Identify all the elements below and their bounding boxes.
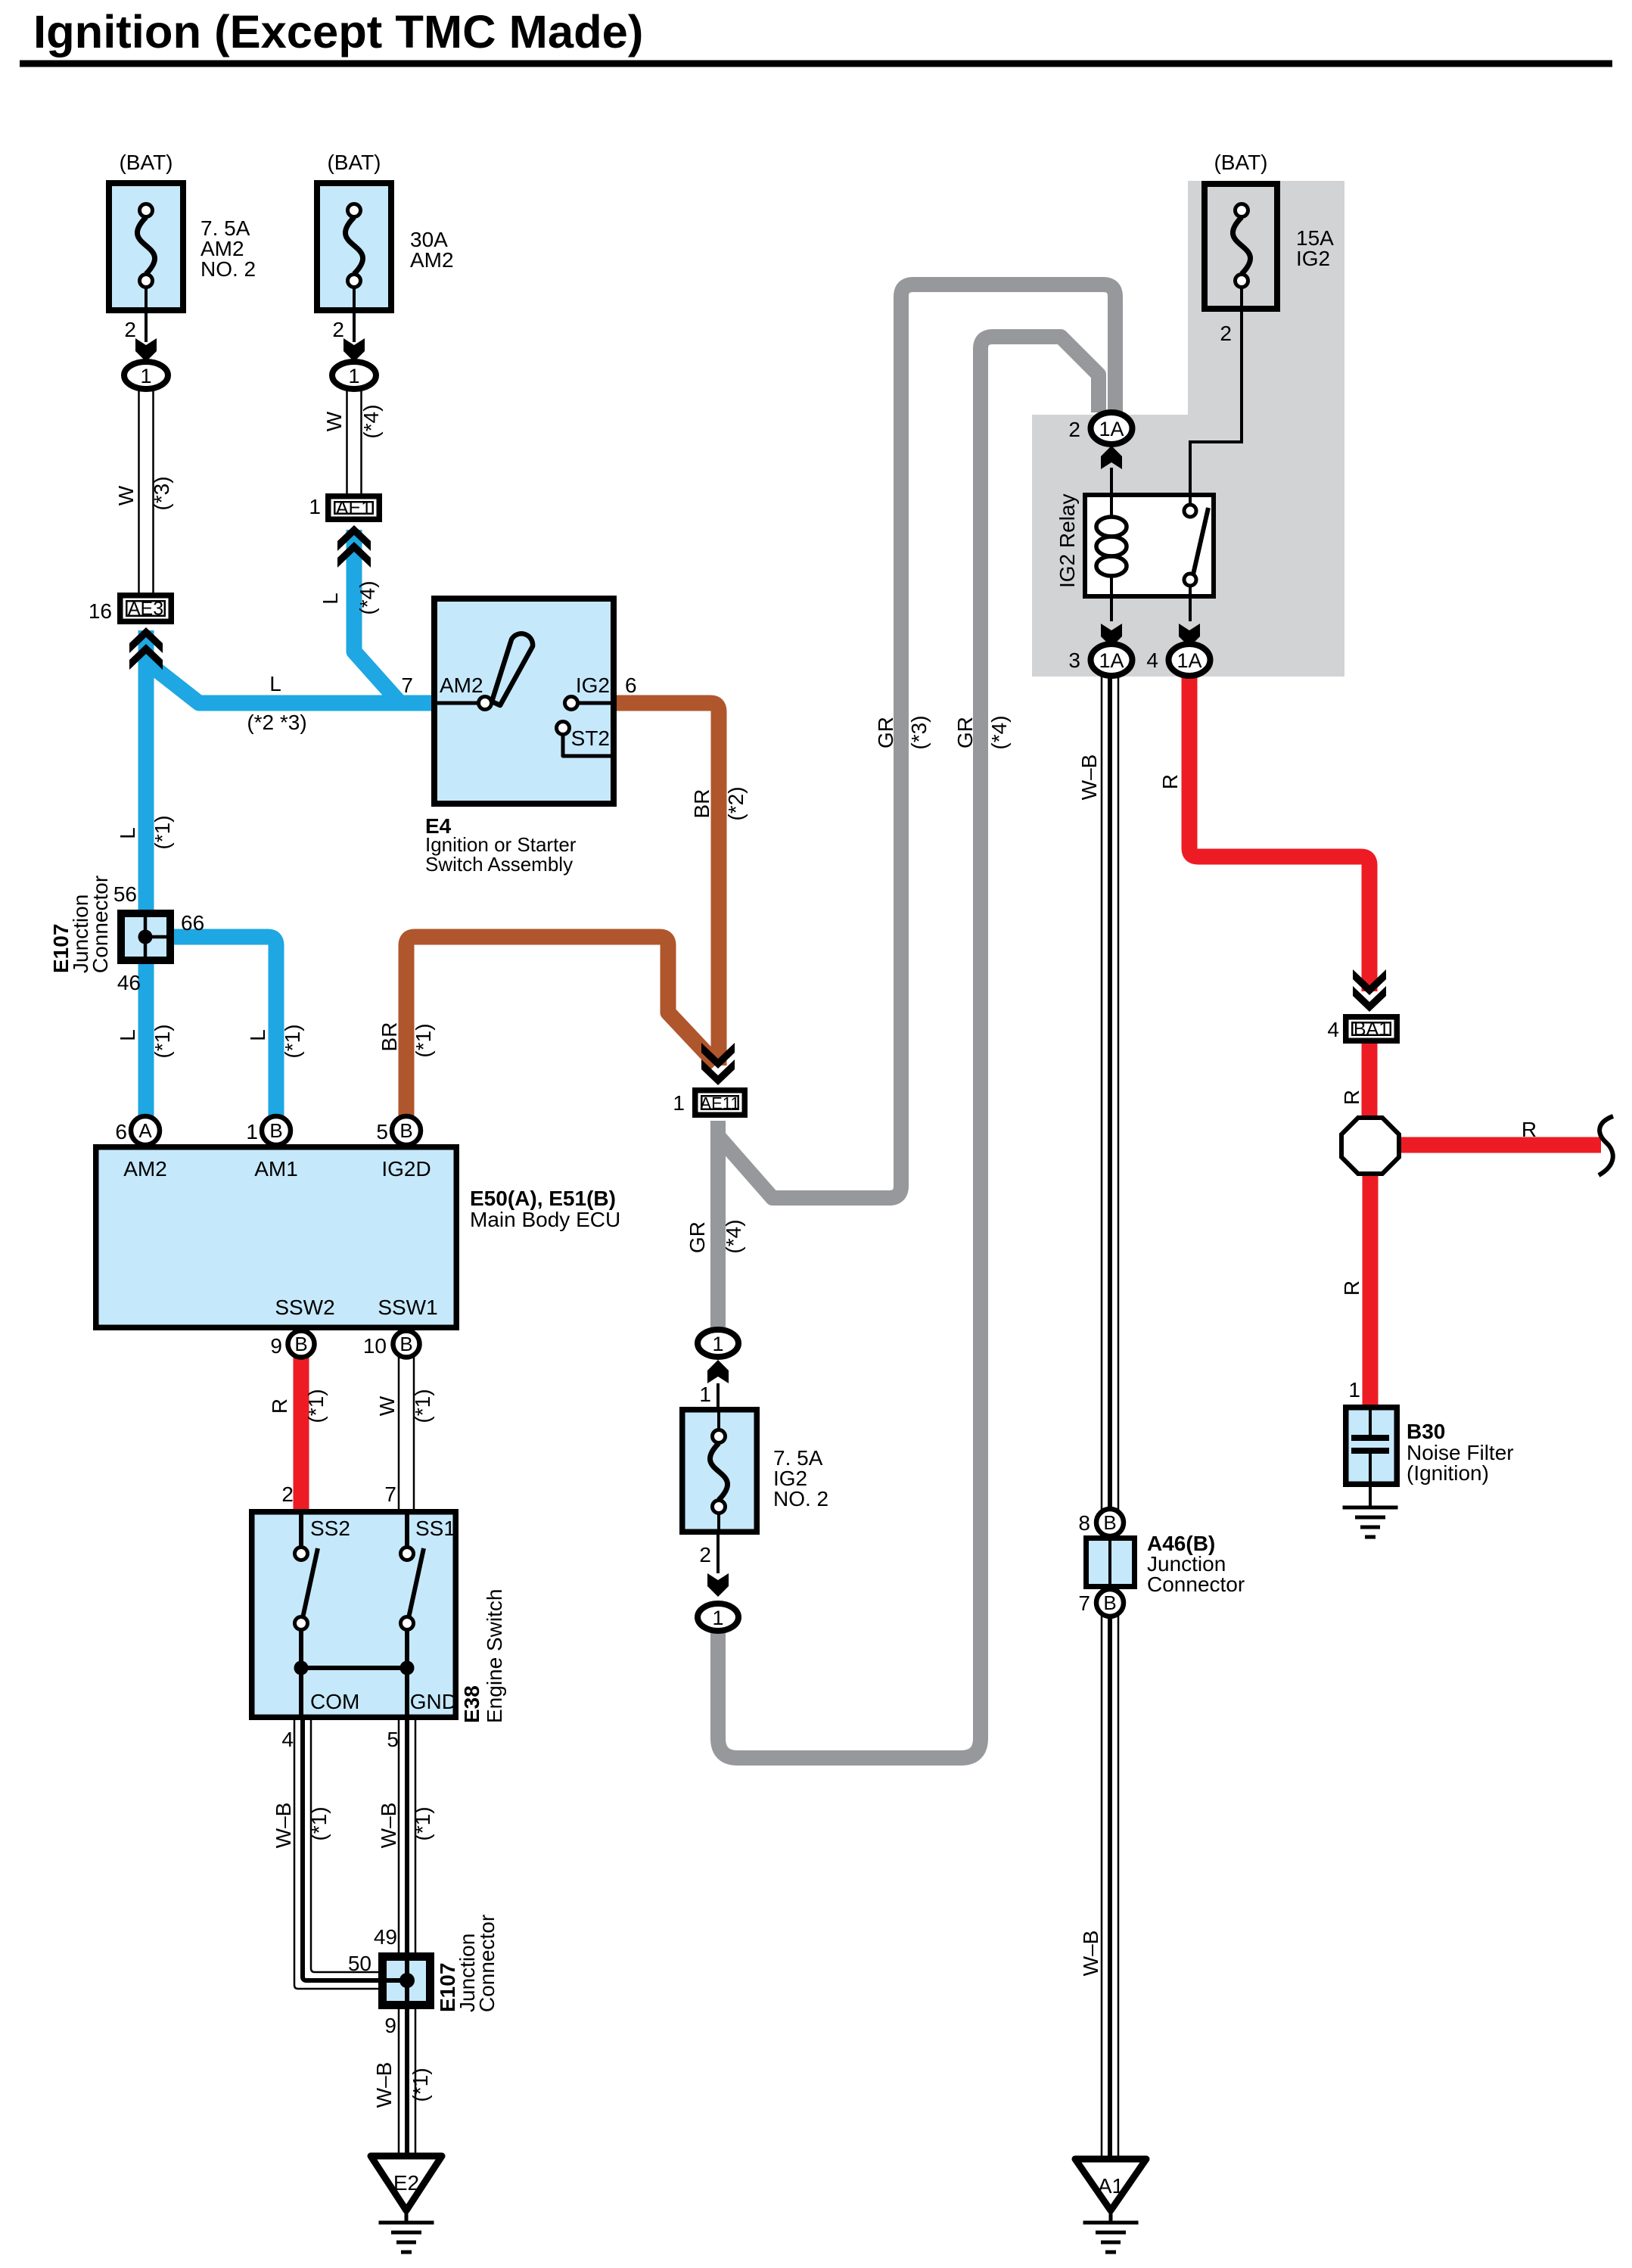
label B30 Noise Filter bbox=[1407, 1420, 1514, 1485]
svg-text:2: 2 bbox=[124, 318, 136, 341]
wire W (*1) ECU SSW1 to engine switch SS1 bbox=[399, 1357, 414, 1509]
svg-text:Connector: Connector bbox=[1147, 1573, 1245, 1596]
svg-text:4: 4 bbox=[1146, 649, 1158, 672]
svg-text:(BAT): (BAT) bbox=[119, 151, 173, 174]
svg-text:Ignition (Except TMC Made): Ignition (Except TMC Made) bbox=[33, 6, 643, 58]
svg-text:A1: A1 bbox=[1098, 2174, 1124, 2198]
ECU pin 9 B bbox=[270, 1331, 314, 1358]
label E107 Junction Connector upper bbox=[49, 876, 112, 973]
wire L from AE3 down to ECU pin A6 bbox=[138, 630, 154, 1116]
svg-text:B: B bbox=[294, 1333, 307, 1355]
E4 AM2 contact bbox=[431, 697, 492, 710]
junction connector E107 upper bbox=[121, 913, 170, 960]
svg-text:GND: GND bbox=[410, 1690, 457, 1713]
label GR (*4) below AE11 bbox=[685, 1219, 745, 1253]
svg-text:46: 46 bbox=[117, 971, 141, 994]
svg-text:BR: BR bbox=[378, 1022, 401, 1052]
A46 pin 7 B bbox=[1078, 1589, 1124, 1616]
label ST2 bbox=[571, 726, 610, 750]
svg-text:(Ignition): (Ignition) bbox=[1407, 1461, 1489, 1485]
svg-text:(*3): (*3) bbox=[150, 476, 173, 510]
arrow into relay 1A-2 bbox=[1101, 446, 1122, 469]
svg-text:1: 1 bbox=[673, 1091, 685, 1115]
svg-text:W: W bbox=[322, 411, 346, 431]
A46 pin 8 B bbox=[1078, 1509, 1124, 1536]
label COM bbox=[310, 1690, 359, 1713]
relay coil bbox=[1096, 493, 1127, 599]
pin 7 engine switch bbox=[384, 1482, 396, 1506]
svg-text:L: L bbox=[116, 1029, 139, 1041]
svg-text:(*1): (*1) bbox=[411, 1389, 434, 1423]
fuse 15A IG2 bbox=[1205, 184, 1277, 310]
svg-text:B: B bbox=[399, 1333, 412, 1355]
label W-B to A1 bbox=[1079, 1930, 1102, 1977]
connector BA1 bbox=[1327, 1017, 1397, 1041]
svg-text:1: 1 bbox=[712, 1607, 723, 1629]
svg-text:(*1): (*1) bbox=[307, 1806, 331, 1840]
svg-text:NO. 2: NO. 2 bbox=[773, 1487, 828, 1510]
label BR (*2) bbox=[690, 786, 748, 820]
svg-text:6: 6 bbox=[625, 674, 637, 697]
svg-text:AM2: AM2 bbox=[123, 1157, 167, 1181]
svg-text:SSW2: SSW2 bbox=[275, 1296, 334, 1319]
arrow below fuse IG2 NO.2 bbox=[707, 1573, 729, 1597]
svg-text:IG2 Relay: IG2 Relay bbox=[1055, 494, 1079, 589]
svg-text:4: 4 bbox=[281, 1728, 294, 1751]
label IG2 Relay bbox=[1055, 494, 1079, 589]
label L (*2 *3) horizontal bbox=[247, 672, 306, 734]
svg-text:(*1): (*1) bbox=[412, 1023, 435, 1057]
connector oval 1A-2 bbox=[1068, 412, 1132, 444]
label 7.5A AM2 NO.2 bbox=[201, 216, 256, 281]
label (BAT) fuse IG2 bbox=[1214, 151, 1267, 174]
wire L (*4) from AE1 down to AM2 branch bbox=[354, 530, 399, 702]
svg-text:2: 2 bbox=[699, 1543, 711, 1566]
ECU pin 10 B bbox=[363, 1331, 420, 1358]
svg-text:AM2: AM2 bbox=[440, 674, 483, 697]
pin 56 bbox=[113, 882, 137, 906]
wire R splice to right break bbox=[1397, 1137, 1601, 1153]
wire L branch to ignition switch AM2 bbox=[143, 659, 431, 703]
label GR (*4) vertical bbox=[953, 715, 1011, 749]
noise filter B30 bbox=[1346, 1405, 1397, 1507]
label R right branch bbox=[1522, 1118, 1537, 1141]
label W-B (*1) to E2 bbox=[372, 2062, 432, 2108]
label SS1 bbox=[415, 1517, 455, 1540]
label W-B (*1) COM bbox=[272, 1803, 331, 1849]
switch SS1 bbox=[401, 1509, 424, 1630]
pin 5 engine switch bbox=[387, 1728, 399, 1751]
svg-text:(*4): (*4) bbox=[722, 1219, 745, 1253]
svg-text:1A: 1A bbox=[1099, 418, 1124, 440]
pin 2 fuse IG2 NO.2 bbox=[699, 1543, 711, 1566]
svg-text:1: 1 bbox=[246, 1120, 258, 1143]
connector AE1 bbox=[309, 495, 379, 519]
ground below B30 bbox=[1343, 1507, 1398, 1537]
svg-text:AM1: AM1 bbox=[254, 1157, 298, 1181]
ECU pin 6 A bbox=[115, 1116, 160, 1145]
label 7.5A IG2 NO.2 bbox=[773, 1446, 828, 1510]
label SSW1 bbox=[378, 1296, 437, 1319]
svg-text:W–B: W–B bbox=[377, 1803, 400, 1849]
svg-text:2: 2 bbox=[332, 318, 344, 341]
svg-text:66: 66 bbox=[181, 911, 204, 935]
junction connector E107 lower bbox=[383, 1957, 431, 2006]
svg-text:(*1): (*1) bbox=[281, 1024, 304, 1058]
label R below splice bbox=[1340, 1280, 1363, 1296]
svg-text:(*1): (*1) bbox=[304, 1389, 328, 1423]
wire GR (*4) from fuse IG2 NO.2 around to relay 1A-2 bbox=[718, 337, 1099, 1758]
relay contact bbox=[1184, 493, 1208, 599]
svg-text:AE1: AE1 bbox=[336, 498, 371, 519]
label 15A IG2 bbox=[1296, 226, 1334, 270]
label R (*1) SSW2 bbox=[268, 1389, 328, 1423]
splice octagon bbox=[1341, 1118, 1399, 1174]
svg-text:GR: GR bbox=[953, 717, 977, 748]
svg-text:2: 2 bbox=[1220, 322, 1232, 345]
label W (*1) SSW1 bbox=[375, 1389, 434, 1423]
svg-text:5: 5 bbox=[376, 1120, 388, 1143]
connector oval 1A-4 bbox=[1146, 644, 1210, 676]
pin 49 bbox=[374, 1925, 397, 1949]
svg-text:GR: GR bbox=[874, 717, 897, 748]
svg-text:16: 16 bbox=[89, 599, 112, 623]
label A46(B) Junction Connector bbox=[1147, 1532, 1245, 1596]
svg-text:Connector: Connector bbox=[89, 876, 112, 973]
title underline bbox=[20, 61, 1612, 67]
pin 1 fuse IG2 NO.2 bbox=[699, 1383, 711, 1406]
svg-text:GR: GR bbox=[685, 1221, 709, 1253]
label W (*4) bbox=[322, 404, 383, 438]
connector oval 1 above fuse IG2 NO.2 bbox=[698, 1330, 738, 1357]
svg-text:(*2): (*2) bbox=[724, 786, 748, 820]
svg-text:B: B bbox=[269, 1119, 282, 1142]
svg-text:3: 3 bbox=[1068, 649, 1080, 672]
label GR (*3) vertical bbox=[874, 715, 931, 749]
svg-text:B: B bbox=[399, 1119, 412, 1142]
IG2 relay box bbox=[1085, 495, 1214, 596]
svg-text:L: L bbox=[116, 827, 139, 839]
label 30A AM2 bbox=[410, 228, 454, 272]
fuse 7.5A IG2 NO.2 bbox=[682, 1409, 757, 1532]
label AM2 ECU bbox=[123, 1157, 167, 1181]
svg-text:A: A bbox=[138, 1119, 152, 1142]
svg-text:COM: COM bbox=[310, 1690, 359, 1713]
svg-text:SS2: SS2 bbox=[310, 1517, 350, 1540]
svg-text:(*1): (*1) bbox=[151, 1024, 174, 1058]
svg-text:SSW1: SSW1 bbox=[378, 1296, 437, 1319]
wire W-B (*1) engine switch GND to ground E2 bbox=[399, 1720, 415, 2166]
svg-text:Connector: Connector bbox=[475, 1915, 499, 2012]
label L (*4) bbox=[319, 580, 379, 614]
svg-text:B: B bbox=[1103, 1591, 1116, 1614]
pin 66 bbox=[181, 911, 204, 935]
svg-text:L: L bbox=[319, 593, 342, 605]
pin 2 fuse AM2 bbox=[332, 318, 344, 341]
svg-text:7: 7 bbox=[401, 674, 413, 697]
svg-text:E2: E2 bbox=[393, 2171, 419, 2195]
svg-text:R: R bbox=[268, 1398, 291, 1414]
label W-B (*1) GND bbox=[377, 1803, 434, 1849]
label E107 Junction Connector lower bbox=[436, 1915, 499, 2012]
label R relay bbox=[1158, 774, 1182, 789]
wire R splice to noise filter B30 bbox=[1363, 1171, 1379, 1406]
svg-text:6: 6 bbox=[115, 1120, 127, 1143]
pin 50 bbox=[348, 1952, 371, 1975]
svg-text:1A: 1A bbox=[1177, 649, 1201, 672]
wire 1A-1 oval to fuse IG2 NO.2 bbox=[717, 1383, 720, 1407]
wire fuse IG2 NO.2 to 1A oval bbox=[717, 1535, 720, 1573]
label E50(A) E51(B) Main Body ECU bbox=[470, 1187, 620, 1231]
svg-text:(*2 *3): (*2 *3) bbox=[247, 711, 306, 734]
svg-text:BR: BR bbox=[690, 789, 713, 819]
label L (*1) to ECU AM2 bbox=[116, 1024, 174, 1058]
svg-text:R: R bbox=[1340, 1090, 1363, 1105]
label L (*1) to ECU AM1 bbox=[246, 1024, 304, 1058]
svg-text:SS1: SS1 bbox=[415, 1517, 455, 1540]
arrow into AE11 bbox=[701, 1043, 735, 1085]
svg-text:W: W bbox=[114, 485, 138, 506]
svg-text:(BAT): (BAT) bbox=[1214, 151, 1267, 174]
wire R from BA1 to splice bbox=[1362, 1044, 1378, 1118]
svg-text:9: 9 bbox=[270, 1334, 282, 1358]
arrow into AE1 bbox=[337, 525, 371, 568]
connector AE3 bbox=[89, 596, 171, 623]
main body ECU box bbox=[96, 1147, 457, 1328]
label AM1 ECU bbox=[254, 1157, 298, 1181]
gray background lower bbox=[1032, 415, 1344, 677]
label (BAT) fuse AM2 NO.2 bbox=[119, 151, 173, 174]
label E4 Ignition or Starter Switch Assembly bbox=[425, 814, 577, 876]
svg-text:7: 7 bbox=[1078, 1591, 1090, 1615]
label (BAT) fuse AM2 bbox=[327, 151, 381, 174]
wire R from relay 1A-4 to BA1 bbox=[1189, 675, 1369, 991]
pin 2 engine switch bbox=[281, 1482, 294, 1506]
engine switch E38 box bbox=[252, 1512, 456, 1718]
svg-text:1: 1 bbox=[140, 365, 151, 387]
svg-text:1A: 1A bbox=[1099, 649, 1124, 672]
svg-text:AE11: AE11 bbox=[700, 1094, 739, 1113]
wire relay coil to 1A-2 bbox=[1110, 468, 1113, 493]
label W (*3) bbox=[114, 476, 173, 510]
label IG2 pin 6 bbox=[576, 674, 637, 697]
E4 key symbol bbox=[492, 633, 533, 705]
svg-text:(*1): (*1) bbox=[151, 815, 174, 849]
svg-text:Switch Assembly: Switch Assembly bbox=[425, 853, 573, 876]
svg-text:10: 10 bbox=[363, 1334, 387, 1358]
svg-text:L: L bbox=[269, 672, 281, 695]
label SSW2 bbox=[275, 1296, 334, 1319]
wire W (*4) fuse AM2 to AE1 bbox=[347, 388, 362, 493]
wire W-B (*1) engine switch COM to junction E107 bbox=[294, 1720, 407, 1989]
label W-B relay bbox=[1077, 754, 1101, 801]
svg-text:4: 4 bbox=[1327, 1018, 1339, 1041]
arrow into oval 1 bbox=[707, 1360, 729, 1383]
arrow into relay 1A-3 bbox=[1101, 624, 1122, 647]
wire BR (*1) from ECU IG2D to AE11 bbox=[406, 937, 717, 1116]
label BR (*1) bbox=[378, 1022, 435, 1058]
switch common bus bbox=[294, 1629, 415, 1720]
wire fuse IG2 to relay bbox=[1190, 310, 1242, 493]
wire L junction E107 to ECU pin B1 bbox=[174, 937, 276, 1116]
svg-text:ST2: ST2 bbox=[571, 726, 610, 750]
svg-text:IG2D: IG2D bbox=[381, 1157, 431, 1181]
svg-text:1: 1 bbox=[1348, 1378, 1360, 1402]
svg-text:AE3: AE3 bbox=[128, 599, 163, 620]
connector oval 1A-3 bbox=[1068, 644, 1132, 676]
svg-text:5: 5 bbox=[387, 1728, 399, 1751]
connector oval 1 below fuse IG2 NO.2 bbox=[698, 1604, 738, 1631]
arrow into BA1 bbox=[1353, 969, 1386, 1012]
gray background upper bbox=[1188, 181, 1344, 415]
svg-text:56: 56 bbox=[113, 882, 137, 906]
connector AE11 bbox=[673, 1090, 745, 1115]
label R above splice bbox=[1340, 1090, 1363, 1105]
svg-text:AM2: AM2 bbox=[410, 248, 454, 272]
label E38 Engine Switch bbox=[460, 1589, 506, 1723]
svg-text:W–B: W–B bbox=[372, 2062, 396, 2108]
switch SS2 bbox=[295, 1509, 319, 1630]
wire W (*3) fuse AM2 NO.2 to AE3 bbox=[139, 388, 154, 593]
svg-text:NO. 2: NO. 2 bbox=[201, 257, 256, 281]
svg-text:W: W bbox=[375, 1395, 399, 1416]
svg-text:W–B: W–B bbox=[1079, 1930, 1102, 1977]
connector oval 1 fuse AM2 bbox=[332, 362, 376, 389]
svg-text:L: L bbox=[246, 1029, 269, 1041]
wire fuse AM2 to connector bbox=[353, 313, 356, 342]
svg-text:W–B: W–B bbox=[272, 1803, 295, 1849]
svg-text:R: R bbox=[1522, 1118, 1537, 1141]
wire GR (*4) from AE11 down to fuse IG2 NO.2 bbox=[710, 1121, 726, 1333]
wire BR (*2) from IG2 terminal to AE11 bbox=[617, 703, 719, 1066]
wire R from ECU SSW2 to engine switch SS2 bbox=[294, 1358, 309, 1509]
svg-text:(*1): (*1) bbox=[411, 1806, 434, 1840]
title bbox=[33, 6, 643, 58]
svg-text:(BAT): (BAT) bbox=[327, 151, 381, 174]
pin 2 fuse IG2 bbox=[1220, 322, 1232, 345]
wire W-B center overdraw lower E107 bbox=[405, 1952, 409, 2009]
E4 IG2 contact bbox=[565, 697, 617, 710]
pin 1 B30 bbox=[1348, 1378, 1360, 1402]
svg-text:IG2: IG2 bbox=[1296, 247, 1330, 270]
label AM2 pin 7 bbox=[401, 674, 483, 697]
pin 2 fuse AM2 NO.2 bbox=[124, 318, 136, 341]
arrow fuse AM2 NO.2 output bbox=[135, 338, 157, 362]
svg-text:8: 8 bbox=[1078, 1511, 1090, 1535]
svg-text:Main Body ECU: Main Body ECU bbox=[470, 1208, 620, 1231]
svg-text:B30: B30 bbox=[1407, 1420, 1445, 1443]
svg-text:(*4): (*4) bbox=[987, 715, 1011, 749]
label GND bbox=[410, 1690, 457, 1713]
svg-text:2: 2 bbox=[281, 1482, 294, 1506]
svg-text:9: 9 bbox=[384, 2014, 396, 2037]
svg-text:1: 1 bbox=[712, 1333, 723, 1355]
svg-text:(*1): (*1) bbox=[409, 2067, 432, 2102]
connector oval 1 bbox=[124, 362, 168, 389]
ignition switch E4 box bbox=[434, 599, 614, 804]
svg-text:E38: E38 bbox=[460, 1685, 483, 1723]
pin 4 engine switch bbox=[281, 1728, 294, 1751]
wire W-B relay 1A-3 to ground A1 bbox=[1102, 675, 1118, 2167]
svg-text:1: 1 bbox=[348, 365, 359, 387]
arrow into relay 1A-4 bbox=[1179, 624, 1200, 647]
wire relay contact to 1A-4 bbox=[1189, 599, 1192, 621]
E4 ST2 contact bbox=[557, 722, 617, 757]
svg-text:BA1: BA1 bbox=[1354, 1019, 1389, 1040]
svg-text:1: 1 bbox=[309, 495, 321, 518]
wire GR (*3) from AE11 up to relay 1A-2 bbox=[718, 285, 1115, 1198]
svg-text:7: 7 bbox=[384, 1482, 396, 1506]
fuse 7.5A AM2 NO.2 bbox=[109, 183, 183, 310]
svg-text:(*3): (*3) bbox=[907, 715, 931, 749]
svg-text:2: 2 bbox=[1068, 418, 1080, 441]
svg-text:Engine Switch: Engine Switch bbox=[483, 1589, 506, 1723]
ECU pin 1 B bbox=[246, 1116, 291, 1145]
wire relay coil to 1A-3 bbox=[1110, 599, 1113, 621]
ground E2 bbox=[371, 2156, 442, 2252]
svg-text:IG2: IG2 bbox=[576, 674, 610, 697]
fuse 30A AM2 bbox=[317, 183, 391, 310]
svg-text:R: R bbox=[1158, 774, 1182, 789]
ground A1 bbox=[1075, 2159, 1146, 2252]
arrow into AE3 bbox=[129, 627, 163, 670]
svg-text:(*4): (*4) bbox=[356, 580, 379, 614]
svg-text:49: 49 bbox=[374, 1925, 397, 1949]
wire break symbol bbox=[1599, 1116, 1613, 1175]
pin 9 junction bbox=[384, 2014, 396, 2037]
svg-text:1: 1 bbox=[699, 1383, 711, 1406]
junction connector A46 bbox=[1086, 1538, 1135, 1587]
svg-text:50: 50 bbox=[348, 1952, 371, 1975]
pin 46 bbox=[117, 971, 141, 994]
svg-text:R: R bbox=[1340, 1280, 1363, 1296]
wire fuse AM2 NO.2 to connector bbox=[145, 313, 148, 342]
label L (*1) to junction bbox=[116, 815, 174, 849]
ECU pin 5 B bbox=[376, 1116, 421, 1145]
svg-text:B: B bbox=[1103, 1511, 1116, 1534]
svg-text:(*4): (*4) bbox=[359, 404, 383, 438]
svg-text:W–B: W–B bbox=[1077, 754, 1101, 801]
label IG2D ECU bbox=[381, 1157, 431, 1181]
arrow fuse AM2 output bbox=[343, 338, 365, 362]
label SS2 bbox=[310, 1517, 350, 1540]
svg-text:E50(A), E51(B): E50(A), E51(B) bbox=[470, 1187, 616, 1210]
